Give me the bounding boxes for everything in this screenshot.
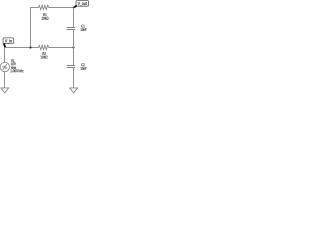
wire below source — [4, 72, 6, 88]
wire mid-left horizontal segment — [5, 47, 39, 49]
label R1 refdes — [43, 13, 46, 16]
label C2 value — [81, 67, 87, 70]
net label V_out box — [76, 1, 89, 7]
net label V_in box — [3, 38, 14, 44]
ground symbol left — [1, 88, 9, 93]
capacitor C1 bottom plate — [67, 29, 76, 31]
capacitor C1 top plate — [67, 27, 76, 29]
AC source V1 circle — [0, 62, 9, 71]
wire left vertical — [30, 7, 32, 48]
wire source drop vertical — [4, 48, 6, 63]
net label V_in leader — [4, 43, 5, 47]
net label V_out leader — [74, 5, 77, 7]
wire top-left horizontal segment — [30, 7, 39, 9]
junction node dot right — [72, 46, 74, 48]
label V1 amplitude — [11, 62, 16, 65]
label C2 refdes — [81, 63, 84, 66]
label R2 refdes — [43, 52, 46, 55]
label C1 refdes — [81, 25, 84, 28]
wire right vertical lower — [73, 68, 75, 88]
wire right vertical upper — [73, 7, 75, 27]
wire mid-right horizontal segment — [49, 47, 74, 49]
resistor R2 — [39, 45, 49, 49]
AC source V1 sine symbol — [2, 66, 7, 68]
label R1 value — [42, 17, 49, 20]
resistor R1 — [39, 5, 49, 9]
net label V_out text — [78, 2, 87, 6]
wire right vertical middle — [73, 30, 75, 65]
label R2 value — [41, 56, 48, 59]
ground symbol right — [70, 88, 78, 93]
net label V_in text — [5, 39, 12, 43]
capacitor C2 top plate — [67, 65, 76, 67]
label V1 waveform — [11, 66, 16, 69]
label V1 name — [11, 59, 14, 62]
junction node dot left — [29, 46, 31, 48]
capacitor C2 bottom plate — [67, 67, 76, 69]
wire top-right horizontal segment — [49, 7, 74, 9]
label V1 frequency — [11, 69, 24, 72]
AC source V1 arrow — [3, 65, 7, 70]
label C1 value — [81, 28, 87, 31]
